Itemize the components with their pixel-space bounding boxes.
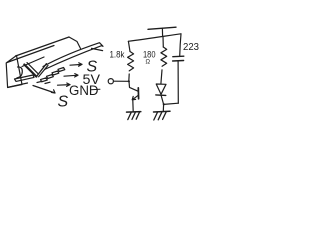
svg-text:GND: GND: [69, 83, 99, 98]
inner bracket on face: [17, 67, 23, 78]
svg-text:1.8k: 1.8k: [110, 50, 125, 61]
phototransistor Q1 collector: [129, 81, 138, 91]
wire to output terminal: [114, 80, 129, 82]
ground A: [127, 112, 141, 120]
LED cathode bar: [156, 94, 166, 97]
LED D1 triangle: [156, 84, 166, 94]
Q1 base bar: [137, 88, 139, 99]
wire rail to capacitor: [180, 34, 181, 56]
junction dot B: [163, 103, 165, 105]
5V stub: [161, 28, 163, 36]
pin 3: [47, 75, 54, 79]
svg-text:223: 223: [183, 42, 199, 53]
top rail: [128, 34, 181, 42]
wire junction to ground B: [162, 104, 164, 111]
capacitor C1 top plate: [173, 55, 184, 58]
V notch: [24, 65, 36, 77]
pin 1: [58, 68, 65, 72]
wire Q1 to ground: [132, 100, 134, 111]
svg-text:Ω: Ω: [146, 60, 151, 66]
ground B: [154, 111, 171, 120]
pin 2: [52, 71, 59, 75]
arrow to GND: [58, 83, 71, 86]
slash through D: [91, 88, 101, 91]
Q1 emitter with arrow: [132, 95, 138, 100]
pin 4: [41, 78, 48, 82]
resistor R1 1.8k: [128, 52, 134, 71]
blade tip underline: [92, 48, 103, 50]
svg-text:S: S: [58, 94, 69, 111]
right end cap: [69, 37, 81, 49]
arrow to S (bottom): [33, 86, 55, 94]
front-top edge: [7, 46, 54, 63]
left face: [6, 56, 22, 88]
arrow to 5V: [64, 74, 78, 77]
ledge board: [15, 75, 35, 81]
wire LED to junction: [161, 96, 163, 105]
blade: [43, 43, 103, 70]
under-pin strokes: [37, 81, 50, 83]
wire R1 to junction: [128, 74, 130, 81]
capacitor C1 bottom plate: [173, 60, 184, 63]
wire rail to R1: [128, 41, 130, 51]
wire cap branch to junction B: [164, 103, 178, 104]
arrow to S (top): [70, 63, 82, 66]
sensor module body: [6, 37, 103, 88]
resistor R2 180: [161, 47, 167, 66]
output terminal circle: [108, 79, 113, 84]
bottom edge: [8, 83, 28, 87]
wire cap to bottom: [177, 61, 179, 103]
wire 5V to R2: [162, 36, 164, 47]
channel inner edge: [22, 57, 44, 67]
back-top edge: [16, 37, 70, 56]
junction dot: [128, 80, 130, 82]
wire R2 to LED: [161, 70, 162, 84]
5V supply bar: [148, 27, 176, 29]
